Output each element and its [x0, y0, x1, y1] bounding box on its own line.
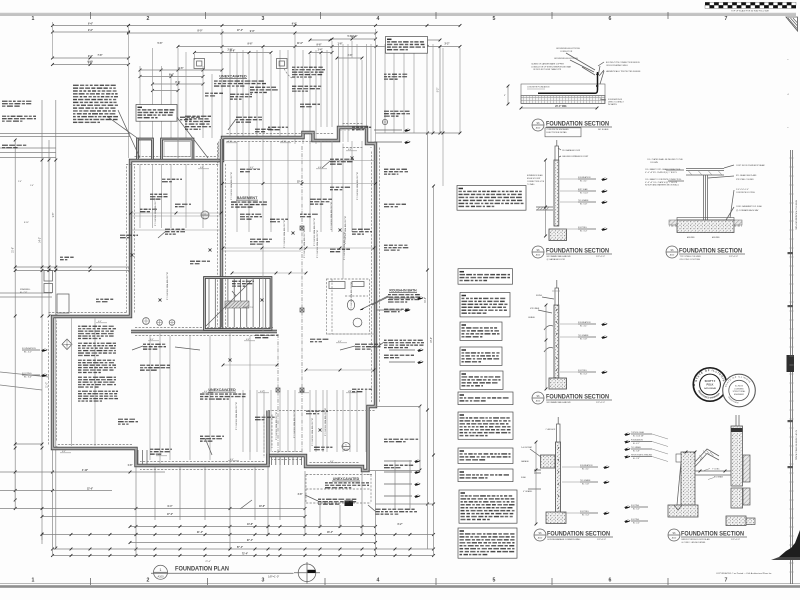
svg-text:2′-0″×2′-0″×1′-0″: 2′-0″×2′-0″×1′-0″: [736, 188, 749, 191]
svg-text:SHEET S-2 FOUNDATION PLAN: SHEET S-2 FOUNDATION PLAN: [795, 200, 798, 230]
svg-text:FOUNDATION SECTION: FOUNDATION SECTION: [546, 121, 609, 128]
bottom dimension lines: [0, 450, 435, 557]
svg-text:A100: A100: [157, 575, 164, 579]
detail 4 side dimension line: [545, 304, 548, 391]
svg-text:B/O BEAM: B/O BEAM: [714, 476, 723, 479]
outer foundation wall: [53, 128, 376, 471]
svg-text:ILLINOIS: ILLINOIS: [735, 386, 744, 388]
right vertical dimension lines: [368, 45, 461, 505]
rotated sill/beam texts: [154, 171, 359, 446]
stairwell: [205, 278, 272, 330]
svg-text:HOUSE/GARAGE COMMON WALL: HOUSE/GARAGE COMMON WALL: [548, 538, 582, 541]
detail 6 title: [668, 529, 747, 544]
svg-text:8′-0″: 8′-0″: [198, 31, 204, 33]
svg-text:1′-8″: 1′-8″: [128, 465, 134, 467]
svg-text:STRUCTURAL: STRUCTURAL: [733, 390, 746, 393]
svg-text:COL. BEAM TO CONCRETE CONNECTI: COL. BEAM TO CONCRETE CONNECTION:: [645, 178, 682, 181]
svg-text:STAIRWELL: STAIRWELL: [20, 288, 31, 291]
survey x-marks: [131, 157, 354, 432]
svg-text:CONDUCTOR OF STEEL REINFORCING: CONDUCTOR OF STEEL REINFORCING BAR: [531, 65, 572, 68]
svg-text:& CONC. LEDGE DETAIL: & CONC. LEDGE DETAIL: [682, 541, 707, 544]
svg-text:FOUNDATION SECTION: FOUNDATION SECTION: [546, 248, 609, 255]
svg-text:UNEXCAVATED: UNEXCAVATED: [219, 75, 247, 79]
svg-text:FOUNDATION SECTION: FOUNDATION SECTION: [679, 248, 742, 255]
svg-text:17′-4″: 17′-4″: [237, 29, 244, 32]
svg-text:P.T. 2X6 SILL SEAL BELOW TYP: P.T. 2X6 SILL SEAL BELOW TYP: [344, 215, 347, 244]
detail 3: steel column on conc footing: [645, 158, 765, 239]
svg-text:FOUNDATION: FOUNDATION: [580, 464, 593, 467]
svg-text:EL: 5′-8″: EL: 5′-8″: [633, 450, 640, 452]
svg-text:31′-6″: 31′-6″: [425, 297, 427, 303]
svg-text:A100: A100: [536, 127, 540, 130]
right sheet edge strip: [787, 59, 798, 584]
svg-text:EL: 5′-8″: EL: 5′-8″: [582, 484, 589, 486]
svg-text:EXPANSION SLAB: EXPANSION SLAB: [527, 174, 543, 177]
svg-text:GROUNDING ELECTRODE: GROUNDING ELECTRODE: [556, 48, 581, 50]
svg-text:P.T. 2X6 SILL SEAL BELOW TYP: P.T. 2X6 SILL SEAL BELOW TYP: [283, 219, 286, 248]
svg-text:1/2″=1′-0″: 1/2″=1′-0″: [597, 539, 606, 541]
svg-text:P.T. 2X6 SILL SEAL BELOW TYP: P.T. 2X6 SILL SEAL BELOW TYP: [350, 281, 353, 310]
stoop/window-well A on north wall: [138, 139, 153, 159]
svg-text:BASEMENT: BASEMENT: [237, 196, 258, 200]
reference bubble in plan (center): [201, 211, 209, 220]
left wing window wells: [44, 271, 69, 314]
svg-text:5: 5: [493, 578, 496, 584]
svg-text:9′-6″: 9′-6″: [169, 74, 175, 76]
room label: UNEXCAVATED (lower left): [200, 388, 246, 400]
top grid reference numbers: [32, 12, 728, 22]
svg-text:FOUNDATION: FOUNDATION: [578, 176, 591, 179]
svg-text:1: 1: [32, 578, 35, 584]
svg-text:UNEXCAVATED: UNEXCAVATED: [333, 477, 360, 481]
svg-text:15′-4″: 15′-4″: [297, 181, 304, 184]
small steps bottom-left: [138, 450, 147, 464]
svg-text:72′-4″: 72′-4″: [242, 552, 249, 555]
svg-text:#4 AWG OR LARGER BARE COPPER: #4 AWG OR LARGER BARE COPPER: [531, 63, 564, 66]
svg-text:4′-8″: 4′-8″: [298, 493, 304, 496]
svg-text:EXP. SLAB: EXP. SLAB: [578, 188, 588, 191]
svg-text:EL: 2′-4″: EL: 2′-4″: [633, 523, 640, 525]
svg-text:047-012345: 047-012345: [704, 387, 716, 390]
svg-text:STL. BEAM. SEE PLANS: STL. BEAM. SEE PLANS: [736, 174, 757, 177]
svg-text:P.T. 2X6 SILL SEAL BELOW TYP: P.T. 2X6 SILL SEAL BELOW TYP: [166, 271, 169, 300]
svg-text:10′-8″: 10′-8″: [259, 506, 266, 508]
svg-text:COLUMN: COLUMN: [650, 162, 658, 164]
detail 4: w/ frame wall above: [528, 280, 607, 389]
detail 1: concrete encased electrode: [504, 48, 641, 137]
svg-text:9′-6″: 9′-6″: [179, 68, 185, 70]
svg-text:P.T. 2X6 SILL SEAL BELOW TYP: P.T. 2X6 SILL SEAL BELOW TYP: [235, 401, 238, 430]
svg-text:9′-6″: 9′-6″: [317, 44, 323, 46]
svg-text:FOUNDATION SECTION: FOUNDATION SECTION: [681, 531, 744, 538]
svg-text:8′-10″: 8′-10″: [24, 222, 29, 224]
interior wall: lower horizontal divider: [131, 330, 277, 333]
svg-text:FOUNDATION PLAN: FOUNDATION PLAN: [175, 566, 229, 573]
svg-text:P.T. 2X6 SILL SEAL BELOW TYP: P.T. 2X6 SILL SEAL BELOW TYP: [311, 417, 314, 446]
detail 4 title: [532, 392, 612, 404]
svg-text:EL: 5′-8″: EL: 5′-8″: [580, 204, 587, 206]
svg-text:5′-6″: 5′-6″: [158, 43, 164, 45]
svg-text:P.T. 2X6 SILL SEAL BELOW TYP: P.T. 2X6 SILL SEAL BELOW TYP: [275, 411, 278, 440]
svg-text:1: 1: [32, 16, 35, 22]
bottom sheet border line: [0, 584, 800, 588]
notes column (right of plan): [457, 186, 526, 559]
svg-text:4″× 4″×8″ STL. PLATE W (4) ¾″: 4″× 4″×8″ STL. PLATE W (4) ¾″ BOLTS: [645, 171, 677, 174]
svg-text:LICENSED: LICENSED: [734, 388, 744, 390]
svg-text:CONT. WOOD PLATE ATOP BEAM: CONT. WOOD PLATE ATOP BEAM: [736, 164, 765, 167]
svg-text:CAULKED EXPANSION JOINT: CAULKED EXPANSION JOINT: [562, 155, 589, 158]
professional stamp B: [723, 374, 756, 407]
beam pocket notes right of plan: [376, 296, 423, 468]
svg-text:FOUNDATION: FOUNDATION: [631, 439, 643, 442]
svg-text:31′-6″: 31′-6″: [13, 247, 15, 253]
svg-text:EL: 4′-1″: EL: 4′-1″: [580, 326, 587, 328]
svg-text:P.T. 2X6 SILL SEAL BELOW TYP: P.T. 2X6 SILL SEAL BELOW TYP: [303, 229, 306, 258]
checkered scale bar (top right): [705, 2, 796, 12]
svg-text:EL: 2′-8″: EL: 2′-8″: [633, 458, 640, 460]
svg-text:P.T. 2X6 SILL SEAL BELOW TYP: P.T. 2X6 SILL SEAL BELOW TYP: [316, 229, 319, 258]
svg-text:CONCRETE FOUNDATION: CONCRETE FOUNDATION: [527, 86, 550, 89]
svg-text:P.T. 2X6 SILL SEAL BELOW TYP: P.T. 2X6 SILL SEAL BELOW TYP: [230, 171, 233, 200]
svg-text:7: 7: [725, 578, 728, 584]
svg-text:9′-6″: 9′-6″: [248, 44, 254, 46]
svg-text:20′-0″ MIN.: 20′-0″ MIN.: [555, 106, 567, 108]
svg-text:16R @ 7.5″: 16R @ 7.5″: [243, 307, 254, 309]
svg-text:7′-8″: 7′-8″: [98, 55, 104, 57]
interior partition thin lines: [131, 138, 376, 466]
bottom grid reference numbers: [32, 578, 728, 586]
svg-text:9′-6″: 9′-6″: [292, 23, 298, 25]
svg-text:COPYRIGHTED © as Posted — K.A.: COPYRIGHTED © as Posted — K.A. Architect…: [716, 572, 772, 575]
svg-text:CONNECTION & TIE: CONNECTION & TIE: [527, 181, 545, 183]
svg-text:1′-4″: 1′-4″: [318, 49, 324, 52]
svg-text:HERMETICALLY PROTECTED SLEEVE: HERMETICALLY PROTECTED SLEEVE: [606, 70, 641, 73]
svg-text:3′-0″: 3′-0″: [348, 55, 354, 57]
svg-text:BRICK PORCH FLOOR SLAB: BRICK PORCH FLOOR SLAB: [682, 538, 711, 541]
interior wall: garage/basement divider (vertical): [220, 139, 223, 330]
svg-text:TOP OF SCALE FOR 30 IN AT FULL: TOP OF SCALE FOR 30 IN AT FULL SIZE: [731, 9, 769, 12]
boxed note (furring) upper right: [386, 37, 428, 54]
svg-text:CONDUCTOR: CONDUCTOR: [560, 51, 573, 53]
svg-text:GARAGE: GARAGE: [521, 460, 529, 463]
svg-text:18′-4″: 18′-4″: [431, 337, 433, 343]
svg-text:6′-2″: 6′-2″: [398, 524, 404, 526]
svg-text:5: 5: [493, 16, 496, 22]
svg-text:9′-2″: 9′-2″: [438, 88, 440, 93]
svg-text:DIRECT CONTACT: DIRECT CONTACT: [608, 101, 625, 104]
svg-text:CONC. BASEMENT FLR. SLAB: CONC. BASEMENT FLR. SLAB: [736, 205, 762, 208]
svg-text:W/ FRAME WALL ABOVE: W/ FRAME WALL ABOVE: [547, 255, 572, 258]
svg-text:4: 4: [377, 16, 380, 22]
svg-text:EL: 7′-8″: EL: 7′-8″: [20, 292, 27, 294]
svg-text:6: 6: [609, 16, 612, 22]
svg-text:ELECTRODE DETAIL: ELECTRODE DETAIL: [547, 131, 568, 134]
svg-text:EL: 3′-4″: EL: 3′-4″: [24, 377, 32, 379]
svg-text:COL. BEAM TO STL. BEAM CONNECT: COL. BEAM TO STL. BEAM CONNECTION:: [645, 168, 681, 171]
svg-text:A100: A100: [538, 537, 542, 540]
svg-text:7: 7: [725, 16, 728, 22]
svg-text:CONCRETE FOOTING: CONCRETE FOOTING: [736, 192, 755, 194]
svg-text:6′-4″: 6′-4″: [88, 61, 94, 64]
svg-text:1′-8″: 1′-8″: [353, 36, 359, 38]
top dimension lines: [51, 22, 461, 186]
svg-text:W/ EARTH: W/ EARTH: [608, 103, 617, 106]
svg-text:4″Ø DRAIN: 4″Ø DRAIN: [530, 307, 540, 310]
tiny elevation tags in plan: [60, 141, 357, 463]
svg-text:POLK: POLK: [707, 383, 714, 386]
room label: UNEXCAVATED (bottom porch): [325, 477, 369, 488]
svg-text:UNEXCAVATED: UNEXCAVATED: [208, 388, 236, 392]
interior wall: bottom stair-area vertical: [266, 411, 269, 465]
wall footing dashed offsets: [49, 124, 380, 475]
svg-text:A100: A100: [670, 254, 674, 257]
svg-text:1/2″=1′-0″: 1/2″=1′-0″: [731, 539, 740, 541]
svg-text:A100: A100: [536, 400, 540, 403]
svg-text:TYP. STEEL COLUMN: TYP. STEEL COLUMN: [680, 256, 702, 258]
svg-text:1/8″=1′-0″: 1/8″=1′-0″: [268, 574, 279, 578]
svg-text:(2) #5 REBARS EACH WAY: (2) #5 REBARS EACH WAY: [736, 209, 759, 212]
svg-text:CONCRETE ENCASED: CONCRETE ENCASED: [547, 128, 570, 131]
svg-text:2′-8″: 2′-8″: [228, 50, 234, 52]
professional stamp A: [693, 368, 727, 401]
svg-text:P.T. 2X6 SILL SEAL BELOW TYP: P.T. 2X6 SILL SEAL BELOW TYP: [154, 197, 157, 226]
svg-text:1/2″=1′-0″: 1/2″=1′-0″: [596, 256, 605, 258]
svg-text:EL: 4′-1″: EL: 4′-1″: [582, 469, 589, 471]
svg-text:1: 1: [160, 568, 162, 572]
interior wall jog above bottom steps: [268, 410, 376, 412]
svg-text:T/O GRADE: T/O GRADE: [631, 446, 642, 449]
sheet top border line: [0, 13, 796, 15]
svg-text:@ GARAGE DOOR: @ GARAGE DOOR: [547, 258, 566, 261]
detail 5: house/garage common wall: [521, 417, 609, 524]
svg-text:EL: 4′-1″: EL: 4′-1″: [633, 443, 640, 445]
svg-text:OF ROD NOT LESS THAN 1/2″Ø: OF ROD NOT LESS THAN 1/2″Ø: [533, 68, 562, 71]
diamond symbol (left wing): [62, 339, 72, 350]
svg-text:P.T. 2X6 SILL SEAL BELOW TYP: P.T. 2X6 SILL SEAL BELOW TYP: [324, 407, 327, 436]
svg-text:14′-2″: 14′-2″: [40, 237, 42, 243]
svg-text:11′-0″: 11′-0″: [297, 43, 304, 45]
svg-text:FOUNDATION IN: FOUNDATION IN: [608, 98, 623, 101]
svg-text:37′-4″: 37′-4″: [247, 539, 254, 542]
svg-text:2×4 KEYWAY: 2×4 KEYWAY: [521, 446, 533, 449]
bottom-right corner wedge: [771, 530, 800, 560]
rough-in bath fixtures: [327, 279, 370, 334]
svg-text:9′-8″: 9′-8″: [53, 213, 55, 218]
floor drains and sump: [143, 119, 388, 325]
svg-text:FOUNDATION: FOUNDATION: [578, 321, 591, 324]
reference bubble in plan (bottom right): [342, 443, 350, 451]
svg-text:A100: A100: [203, 217, 207, 220]
svg-text:A100: A100: [344, 448, 348, 451]
left margin labels (FOUNDATION/FOOTING elevations): [22, 347, 47, 379]
detail 6: brick porch floor slab: [624, 415, 755, 526]
svg-text:2: 2: [147, 578, 150, 584]
svg-text:16′-4″: 16′-4″: [327, 531, 334, 534]
detail 5 side dimension line: [535, 441, 538, 526]
svg-text:EL: 3′-4″: EL: 3′-4″: [580, 374, 587, 376]
label: ROUGH-IN BATH: [360, 289, 420, 311]
corner fold mark (top right): [786, 17, 798, 31]
svg-text:EL: 4′-1″: EL: 4′-1″: [580, 181, 587, 183]
svg-text:3: 3: [262, 578, 265, 584]
svg-text:3″Ø STEEL COLUMN: 3″Ø STEEL COLUMN: [736, 179, 754, 181]
basement exterior stair treads (bottom center): [272, 457, 302, 466]
svg-text:2′-0″: 2′-0″: [18, 181, 22, 183]
svg-text:T/O GRADE: T/O GRADE: [580, 479, 591, 482]
detail 5 title: [534, 529, 613, 541]
room label: BASEMENT: [231, 196, 267, 208]
svg-text:GRAVEL: GRAVEL: [528, 316, 535, 319]
svg-text:S2 OF 4 SHEETS STRUCTURAL: S2 OF 4 SHEETS STRUCTURAL: [795, 430, 798, 461]
svg-text:1/2″=1′-0″: 1/2″=1′-0″: [729, 256, 738, 258]
svg-text:EL: 3′-4″: EL: 3′-4″: [582, 515, 589, 517]
svg-text:4: 4: [377, 578, 380, 584]
room label: UNEXCAVATED (top): [214, 75, 266, 87]
stoop/window-well B on north wall: [162, 139, 194, 159]
wing partition line: [72, 318, 96, 446]
svg-text:4′-10″: 4′-10″: [82, 469, 89, 472]
svg-text:9′-6″: 9′-6″: [88, 30, 94, 32]
svg-text:T/O GRADE: T/O GRADE: [578, 199, 589, 202]
svg-text:W/ FRAME WALL ABOVE: W/ FRAME WALL ABOVE: [547, 401, 572, 404]
svg-text:EL: 5′-8″: EL: 5′-8″: [580, 339, 587, 341]
svg-text:OR EXOTHERMIC WELD: OR EXOTHERMIC WELD: [606, 65, 629, 67]
svg-text:P.T. 2X6 SILL SEAL BELOW TYP: P.T. 2X6 SILL SEAL BELOW TYP: [356, 171, 359, 200]
svg-text:EL: 10′-6 1/8″: EL: 10′-6 1/8″: [633, 435, 644, 437]
svg-text:P.T. 2X6 SILL SEAL BELOW TYP: P.T. 2X6 SILL SEAL BELOW TYP: [330, 201, 333, 230]
svg-text:14′-8″: 14′-8″: [247, 523, 254, 526]
svg-text:6: 6: [609, 578, 612, 584]
svg-text:FOUNDATION SECTION: FOUNDATION SECTION: [546, 394, 609, 401]
svg-text:EL: 4′-1″: EL: 4′-1″: [24, 352, 32, 354]
svg-text:12′-6″: 12′-6″: [87, 489, 94, 491]
svg-text:3: 3: [262, 16, 265, 22]
svg-text:SLAB: SLAB: [521, 476, 526, 479]
svg-text:57′-4″: 57′-4″: [237, 546, 244, 549]
steel beam line (dash-dot) with columns: [276, 146, 304, 453]
svg-text:EL: 5′-10″: EL: 5′-10″: [580, 193, 589, 195]
svg-text:A100: A100: [536, 254, 540, 257]
svg-text:1′-4″: 1′-4″: [30, 185, 34, 187]
svg-text:EL: 3′-0″: EL: 3′-0″: [633, 509, 640, 511]
svg-text:P.T. 2X6 SILL SEAL BELOW TYP: P.T. 2X6 SILL SEAL BELOW TYP: [313, 217, 316, 246]
svg-text:EDGE W/ JOINT: EDGE W/ JOINT: [527, 178, 541, 180]
svg-text:72′-4″: 72′-4″: [205, 561, 211, 563]
interior extension-line texture: [130, 141, 377, 460]
svg-text:1/2″=1′-0″: 1/2″=1′-0″: [596, 402, 605, 404]
svg-text:2: 2: [147, 16, 150, 22]
svg-text:9′-6″: 9′-6″: [88, 56, 94, 58]
svg-text:ROUGH-IN BATH: ROUGH-IN BATH: [389, 289, 417, 293]
left notes paragraph: [2, 85, 278, 149]
porch slab dashed outline (bottom): [306, 475, 371, 507]
svg-text:FOUNDATION: FOUNDATION: [22, 347, 36, 350]
detail titles row (2 and 3): [532, 246, 745, 261]
svg-text:3′-2″: 3′-2″: [445, 44, 451, 46]
svg-text:SIDING: SIDING: [536, 295, 543, 297]
svg-text:9′-6″: 9′-6″: [88, 23, 94, 25]
svg-text:P.T. 2X6 SILL SEAL BELOW TYP: P.T. 2X6 SILL SEAL BELOW TYP: [293, 409, 296, 438]
svg-text:17′-0″: 17′-0″: [167, 514, 174, 516]
drawing title: FOUNDATION PLAN: [151, 561, 294, 579]
column pad (top) B: [277, 59, 326, 92]
detail 2 side dimension line: [544, 159, 547, 238]
svg-text:NO SCALE: NO SCALE: [598, 128, 609, 131]
fireplace bump outline detail: [341, 128, 361, 132]
svg-text:HYDROSTATIC SPACING: HYDROSTATIC SPACING: [631, 454, 653, 457]
svg-text:21′-4″: 21′-4″: [197, 531, 204, 534]
svg-text:9′-4″: 9′-4″: [168, 505, 174, 508]
boxed note (furring strips) upper left: [136, 105, 177, 122]
svg-text:7″ CONC: 7″ CONC: [712, 469, 720, 471]
svg-text:9′-6″: 9′-6″: [250, 31, 256, 33]
svg-text:EL: 3′-4″: EL: 3′-4″: [580, 231, 587, 233]
north arrow: [294, 562, 320, 584]
svg-text:W/ NUTS AND WASHERS SECTION A: W/ NUTS AND WASHERS SECTION A3.1: [645, 184, 679, 187]
svg-text:T/O GRADE: T/O GRADE: [578, 334, 589, 337]
misc annotation blocks in plan: [60, 74, 424, 515]
svg-text:BOLTED-TYPE CONNECTION DEVICE: BOLTED-TYPE CONNECTION DEVICE: [606, 62, 641, 64]
svg-text:A100: A100: [672, 537, 676, 540]
svg-text:FOUNDATION SECTION: FOUNDATION SECTION: [547, 531, 610, 538]
left dimension lines: [0, 100, 131, 549]
svg-text:TO WALL: TO WALL: [527, 183, 535, 186]
svg-text:TOPSOIL SLAB: TOPSOIL SLAB: [631, 431, 645, 434]
column pad (top) A: [194, 59, 205, 69]
svg-text:1X4 GARAGE DOOR: 1X4 GARAGE DOOR: [562, 149, 581, 152]
svg-text:4″ GRAVEL: 4″ GRAVEL: [523, 490, 532, 493]
svg-text:ENGINEER: ENGINEER: [734, 394, 745, 396]
svg-text:GROUNDING ELECTRODE: GROUNDING ELECTRODE: [554, 58, 579, 60]
svg-text:COL. PLATES SHALL BE WELDED TO: COL. PLATES SHALL BE WELDED TO THE: [647, 158, 683, 161]
svg-text:ON CONC. FOOTING: ON CONC. FOOTING: [680, 259, 701, 261]
detail 2: frame wall above @ garage door: [527, 140, 607, 241]
leader lines in plan: [108, 110, 388, 511]
